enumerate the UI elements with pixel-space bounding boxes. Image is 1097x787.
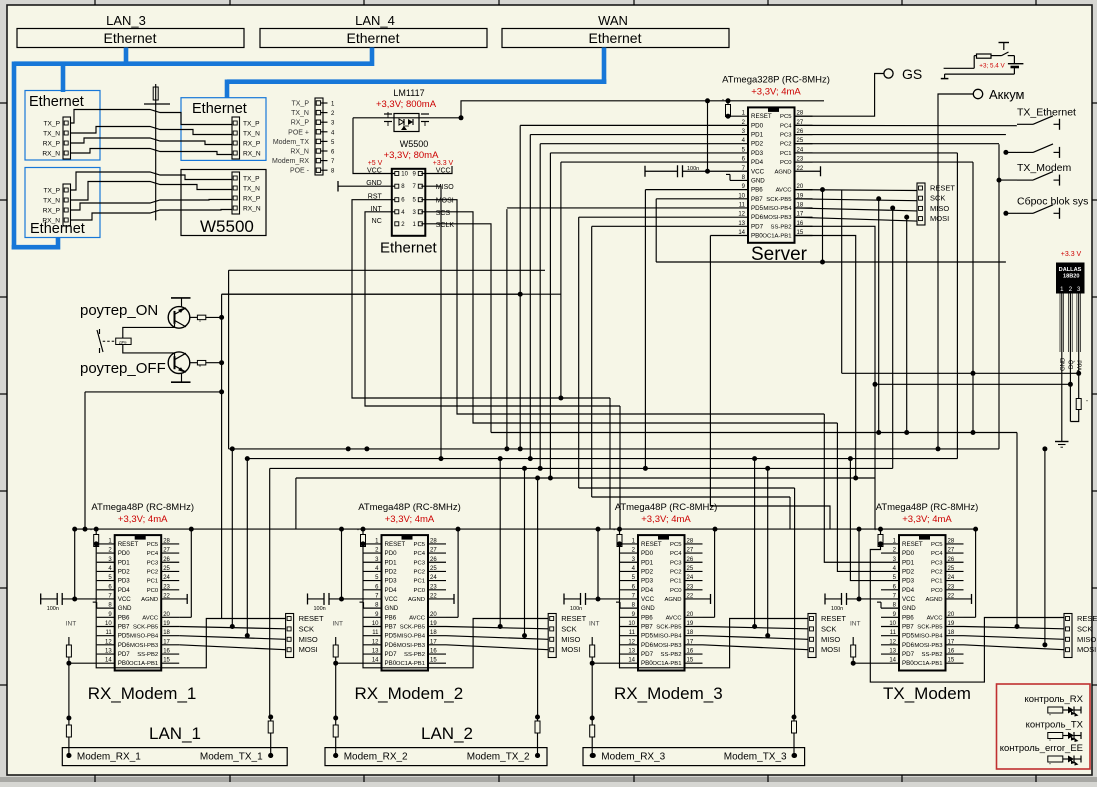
svg-text:TX_Modem: TX_Modem xyxy=(1017,162,1072,174)
svg-text:27: 27 xyxy=(430,548,437,554)
svg-text:": " xyxy=(614,529,616,535)
svg-text:PD7: PD7 xyxy=(641,651,654,658)
svg-text:RESET: RESET xyxy=(821,614,846,623)
svg-text:10: 10 xyxy=(628,621,635,627)
svg-text:15: 15 xyxy=(948,658,955,664)
svg-text:RX_P: RX_P xyxy=(243,141,261,148)
svg-text:": " xyxy=(199,366,201,372)
svg-text:SCK: SCK xyxy=(561,624,576,633)
svg-text:PD1: PD1 xyxy=(385,559,398,566)
svg-text:PC1: PC1 xyxy=(414,579,425,585)
svg-text:ATmega328P (RC-8MHz): ATmega328P (RC-8MHz) xyxy=(722,74,830,85)
svg-text:18B20: 18B20 xyxy=(1063,274,1079,280)
svg-text:": " xyxy=(722,99,724,105)
svg-text:PD1: PD1 xyxy=(641,559,654,566)
svg-text:24: 24 xyxy=(430,575,437,581)
svg-text:13: 13 xyxy=(628,649,635,655)
svg-text:20: 20 xyxy=(430,612,437,618)
svg-text:MOSI: MOSI xyxy=(436,198,454,205)
svg-text:16: 16 xyxy=(163,649,170,655)
svg-text:RX_N: RX_N xyxy=(243,206,261,213)
svg-text:LAN_4: LAN_4 xyxy=(355,13,395,28)
svg-text:MISO-PB4: MISO-PB4 xyxy=(653,634,682,640)
svg-text:ДРв: ДРв xyxy=(119,339,127,344)
svg-text:MISO: MISO xyxy=(1077,635,1096,644)
svg-text:RX_Modem_2: RX_Modem_2 xyxy=(355,684,464,703)
svg-text:12: 12 xyxy=(372,639,379,645)
svg-text:14: 14 xyxy=(105,658,112,664)
svg-text:SCLK: SCLK xyxy=(436,222,455,229)
svg-text:22: 22 xyxy=(163,593,170,599)
svg-text:TX_N: TX_N xyxy=(291,110,309,117)
svg-text:MISO-PB4: MISO-PB4 xyxy=(397,634,426,640)
svg-text:PC5: PC5 xyxy=(780,114,792,120)
svg-text:WAN: WAN xyxy=(598,13,628,28)
svg-text:PD0: PD0 xyxy=(641,550,654,557)
svg-text:22: 22 xyxy=(948,593,955,599)
svg-text:TX_N: TX_N xyxy=(43,131,60,138)
svg-text:PD3: PD3 xyxy=(641,578,654,585)
svg-text:PC4: PC4 xyxy=(931,551,943,557)
svg-text:PC0: PC0 xyxy=(414,588,426,594)
svg-text:RX_N: RX_N xyxy=(243,151,261,158)
svg-text:MISO: MISO xyxy=(299,635,318,644)
svg-text:AVCC: AVCC xyxy=(776,188,793,194)
svg-text:TX_N: TX_N xyxy=(243,131,260,138)
svg-text:SCS: SCS xyxy=(436,210,451,217)
svg-text:GND: GND xyxy=(118,605,132,612)
svg-text:17: 17 xyxy=(163,639,170,645)
svg-text:14: 14 xyxy=(889,658,896,664)
svg-text:RX_P: RX_P xyxy=(43,141,61,148)
svg-text:AGND: AGND xyxy=(141,597,158,603)
svg-text:MOSI-PB3: MOSI-PB3 xyxy=(914,643,943,649)
svg-text:27: 27 xyxy=(948,548,955,554)
svg-text:PD1: PD1 xyxy=(902,559,915,566)
svg-text:100n: 100n xyxy=(314,606,326,612)
svg-text:PC5: PC5 xyxy=(670,542,682,548)
svg-text:PC1: PC1 xyxy=(147,579,158,585)
svg-text:18: 18 xyxy=(163,630,170,636)
svg-text:PD5: PD5 xyxy=(902,633,915,640)
svg-text:POE +: POE + xyxy=(288,129,309,136)
svg-text:GS: GS xyxy=(902,66,922,82)
svg-text:Аккум: Аккум xyxy=(989,87,1025,102)
svg-text:25: 25 xyxy=(687,566,694,572)
svg-text:10: 10 xyxy=(738,193,745,199)
svg-text:Сброс blok sys: Сброс blok sys xyxy=(1017,195,1088,207)
svg-text:PD4: PD4 xyxy=(385,587,398,594)
svg-text:26: 26 xyxy=(687,557,694,563)
svg-text:PD7: PD7 xyxy=(751,223,764,230)
svg-text:AGND: AGND xyxy=(774,169,791,175)
svg-text:Modem_TX_2: Modem_TX_2 xyxy=(467,752,530,763)
svg-text:25: 25 xyxy=(430,566,437,572)
svg-text:VCC: VCC xyxy=(385,596,399,603)
svg-text:контроль_error_EE: контроль_error_EE xyxy=(1000,743,1083,754)
svg-text:100n: 100n xyxy=(570,606,582,612)
svg-text:RX_N: RX_N xyxy=(42,218,60,225)
svg-text:SCK-PB5: SCK-PB5 xyxy=(400,624,426,630)
svg-text:VCC: VCC xyxy=(751,168,765,175)
svg-text:PD6: PD6 xyxy=(118,642,131,649)
svg-text:роутер_ON: роутер_ON xyxy=(80,302,158,319)
svg-text:PC3: PC3 xyxy=(147,560,159,566)
svg-text:NC: NC xyxy=(372,218,382,225)
svg-text:": " xyxy=(1086,400,1088,406)
svg-text:PD3: PD3 xyxy=(385,578,398,585)
svg-text:MISO: MISO xyxy=(561,635,580,644)
svg-text:PC2: PC2 xyxy=(414,569,425,575)
svg-text:ATmega48P (RC-8MHz): ATmega48P (RC-8MHz) xyxy=(876,502,979,513)
svg-text:TX_P: TX_P xyxy=(44,121,61,128)
svg-text:PD6: PD6 xyxy=(641,642,654,649)
svg-text:Modem_RX_3: Modem_RX_3 xyxy=(601,752,665,763)
svg-text:19: 19 xyxy=(163,621,170,627)
svg-text:Modem_TX_3: Modem_TX_3 xyxy=(724,752,787,763)
svg-text:26: 26 xyxy=(430,557,437,563)
svg-text:SCK: SCK xyxy=(821,624,836,633)
svg-text:AVCC: AVCC xyxy=(666,615,683,621)
svg-text:INT: INT xyxy=(589,621,600,628)
svg-text:24: 24 xyxy=(163,575,170,581)
svg-text:PB7: PB7 xyxy=(118,623,130,630)
svg-text:ATmega48P (RC-8MHz): ATmega48P (RC-8MHz) xyxy=(91,502,194,513)
svg-text:SS-PB2: SS-PB2 xyxy=(922,652,943,658)
svg-text:20: 20 xyxy=(948,612,955,618)
svg-text:RESET: RESET xyxy=(1077,614,1097,623)
svg-text:PD2: PD2 xyxy=(751,141,764,148)
svg-text:26: 26 xyxy=(948,557,955,563)
svg-text:": " xyxy=(1049,763,1051,769)
svg-text:PD4: PD4 xyxy=(751,159,764,166)
svg-text:PC0: PC0 xyxy=(670,588,682,594)
svg-text:28: 28 xyxy=(163,538,170,544)
svg-text:SS-PB2: SS-PB2 xyxy=(661,652,682,658)
svg-text:10: 10 xyxy=(105,621,112,627)
svg-text:MOSI: MOSI xyxy=(1077,645,1096,654)
svg-text:SS-PB2: SS-PB2 xyxy=(404,652,425,658)
svg-text:13: 13 xyxy=(372,649,379,655)
svg-text:MOSI-PB3: MOSI-PB3 xyxy=(397,643,426,649)
svg-text:TX_N: TX_N xyxy=(243,186,260,193)
svg-text:11: 11 xyxy=(890,630,897,636)
svg-text:11: 11 xyxy=(105,630,112,636)
svg-text:RESET: RESET xyxy=(118,541,139,548)
svg-text:RESET: RESET xyxy=(385,541,406,548)
svg-text:Modem_RX_2: Modem_RX_2 xyxy=(344,752,408,763)
svg-text:24: 24 xyxy=(687,575,694,581)
svg-text:10: 10 xyxy=(372,621,379,627)
svg-text:OC1A-PB1: OC1A-PB1 xyxy=(129,661,158,667)
svg-text:PD2: PD2 xyxy=(385,568,398,575)
svg-text:24: 24 xyxy=(948,575,955,581)
svg-text:12: 12 xyxy=(889,639,896,645)
svg-text:PC3: PC3 xyxy=(931,560,943,566)
svg-text:23: 23 xyxy=(687,584,694,590)
svg-text:22: 22 xyxy=(687,593,694,599)
svg-text:W5500: W5500 xyxy=(400,139,429,149)
svg-text:RX_Modem_3: RX_Modem_3 xyxy=(614,684,723,703)
svg-text:PB6: PB6 xyxy=(751,187,763,194)
svg-text:SCK: SCK xyxy=(930,194,945,203)
svg-text:AGND: AGND xyxy=(408,597,425,603)
svg-text:PC4: PC4 xyxy=(147,551,159,557)
svg-text:MISO-PB4: MISO-PB4 xyxy=(763,206,792,212)
svg-text:PB7: PB7 xyxy=(902,623,914,630)
svg-text:28: 28 xyxy=(687,538,694,544)
svg-text:12: 12 xyxy=(628,639,635,645)
svg-text:PD1: PD1 xyxy=(751,132,764,139)
svg-text:Ethernet: Ethernet xyxy=(347,30,400,46)
svg-text:контроль_TX: контроль_TX xyxy=(1026,720,1084,731)
svg-text:PC2: PC2 xyxy=(931,569,942,575)
svg-text:MOSI: MOSI xyxy=(930,214,949,223)
svg-text:INT: INT xyxy=(66,621,77,628)
svg-text:PD4: PD4 xyxy=(902,587,915,594)
svg-text:19: 19 xyxy=(687,621,694,627)
svg-text:AVCC: AVCC xyxy=(927,615,944,621)
svg-text:14: 14 xyxy=(738,230,745,236)
svg-text:+3.3 V: +3.3 V xyxy=(1061,251,1082,258)
svg-text:23: 23 xyxy=(948,584,955,590)
svg-text:PD0: PD0 xyxy=(118,550,131,557)
svg-text:PC1: PC1 xyxy=(931,579,942,585)
svg-text:TX_P: TX_P xyxy=(291,101,309,108)
svg-text:RESET: RESET xyxy=(561,614,586,623)
svg-text:15: 15 xyxy=(687,658,694,664)
svg-text:PD1: PD1 xyxy=(118,559,131,566)
svg-text:17: 17 xyxy=(948,639,955,645)
svg-text:PC0: PC0 xyxy=(931,588,943,594)
svg-text:PC0: PC0 xyxy=(780,160,792,166)
svg-text:PB6: PB6 xyxy=(118,614,130,621)
svg-text:26: 26 xyxy=(163,557,170,563)
svg-text:17: 17 xyxy=(687,639,694,645)
svg-text:DALLAS: DALLAS xyxy=(1059,267,1082,273)
svg-text:PD5: PD5 xyxy=(751,205,764,212)
svg-text:MISO-PB4: MISO-PB4 xyxy=(914,634,943,640)
svg-text:MOSI: MOSI xyxy=(821,645,840,654)
svg-text:+3,3V; 4mA: +3,3V; 4mA xyxy=(118,514,168,525)
svg-text:PD4: PD4 xyxy=(641,587,654,594)
svg-text:+3,3V; 4mA: +3,3V; 4mA xyxy=(902,514,952,525)
svg-text:W5500: W5500 xyxy=(200,217,254,236)
svg-text:RESET: RESET xyxy=(751,113,772,120)
svg-text:12: 12 xyxy=(738,212,745,218)
svg-text:22: 22 xyxy=(430,593,437,599)
svg-text:PD2: PD2 xyxy=(118,568,131,575)
svg-text:13: 13 xyxy=(889,649,896,655)
svg-text:PD6: PD6 xyxy=(902,642,915,649)
svg-text:PB7: PB7 xyxy=(641,623,653,630)
svg-text:": " xyxy=(357,529,359,535)
svg-text:контроль_RX: контроль_RX xyxy=(1025,694,1084,705)
svg-text:PC2: PC2 xyxy=(670,569,681,575)
svg-text:OC1A-PB1: OC1A-PB1 xyxy=(396,661,425,667)
svg-text:TX_P: TX_P xyxy=(44,188,61,195)
svg-text:MOSI-PB3: MOSI-PB3 xyxy=(653,643,682,649)
svg-text:+3,3V; 4mA: +3,3V; 4mA xyxy=(385,514,435,525)
svg-text:Modem_RX: Modem_RX xyxy=(272,158,309,165)
svg-text:RX_P: RX_P xyxy=(243,196,261,203)
svg-text:RX_N: RX_N xyxy=(290,149,309,156)
svg-text:+3,3V; 800mA: +3,3V; 800mA xyxy=(376,99,437,110)
svg-text:INT: INT xyxy=(850,621,861,628)
svg-text:PC4: PC4 xyxy=(670,551,682,557)
svg-text:POE -: POE - xyxy=(290,168,310,175)
svg-text:LM1117: LM1117 xyxy=(393,88,424,98)
svg-text:28: 28 xyxy=(948,538,955,544)
svg-text:RX_Modem_1: RX_Modem_1 xyxy=(88,684,197,703)
svg-text:PC1: PC1 xyxy=(780,151,791,157)
svg-text:PD5: PD5 xyxy=(118,633,131,640)
svg-text:AGND: AGND xyxy=(925,597,942,603)
svg-text:Modem_TX: Modem_TX xyxy=(273,139,310,146)
svg-text:LAN_2: LAN_2 xyxy=(421,724,473,743)
svg-text:RX_N: RX_N xyxy=(42,151,60,158)
svg-text:роутер_OFF: роутер_OFF xyxy=(80,360,166,377)
svg-text:+3,3V; 4mA: +3,3V; 4mA xyxy=(751,86,801,97)
svg-text:Ethernet: Ethernet xyxy=(589,30,642,46)
svg-text:17: 17 xyxy=(430,639,437,645)
svg-text:Modem_RX_1: Modem_RX_1 xyxy=(77,752,141,763)
svg-text:PC5: PC5 xyxy=(414,542,426,548)
svg-text:PD7: PD7 xyxy=(902,651,915,658)
svg-text:+3,3V; 80mA: +3,3V; 80mA xyxy=(384,150,439,161)
svg-text:GND: GND xyxy=(385,605,399,612)
svg-text:Ethernet: Ethernet xyxy=(29,94,84,110)
svg-text:MISO: MISO xyxy=(436,184,454,191)
svg-text:OC1A-PB1: OC1A-PB1 xyxy=(762,233,791,239)
svg-text:INT: INT xyxy=(333,621,344,628)
svg-text:PD2: PD2 xyxy=(902,568,915,575)
svg-text:RESET: RESET xyxy=(902,541,923,548)
svg-text:SCK-PB5: SCK-PB5 xyxy=(656,624,682,630)
svg-text:23: 23 xyxy=(163,584,170,590)
svg-text:20: 20 xyxy=(163,612,170,618)
svg-text:OC1A-PB1: OC1A-PB1 xyxy=(913,661,942,667)
svg-text:PC3: PC3 xyxy=(670,560,682,566)
svg-text:100n: 100n xyxy=(687,166,699,172)
svg-text:Ethernet: Ethernet xyxy=(104,30,157,46)
svg-text:+3,3V; 4mA: +3,3V; 4mA xyxy=(641,514,691,525)
svg-text:PC4: PC4 xyxy=(414,551,426,557)
svg-text:MOSI: MOSI xyxy=(299,645,318,654)
svg-text:MISO: MISO xyxy=(821,635,840,644)
svg-text:+3.3 V: +3.3 V xyxy=(433,160,454,167)
svg-text:16: 16 xyxy=(948,649,955,655)
svg-text:PD5: PD5 xyxy=(641,633,654,640)
svg-text:TX_P: TX_P xyxy=(243,121,260,128)
svg-text:PD7: PD7 xyxy=(118,651,131,658)
svg-text:22: 22 xyxy=(797,166,804,172)
svg-text:TX_Ethernet: TX_Ethernet xyxy=(1017,106,1076,118)
svg-text:13: 13 xyxy=(105,649,112,655)
svg-text:10: 10 xyxy=(889,621,896,627)
svg-text:PC1: PC1 xyxy=(670,579,681,585)
svg-text:PD6: PD6 xyxy=(751,214,764,221)
svg-text:GND: GND xyxy=(751,177,765,184)
svg-text:PD7: PD7 xyxy=(385,651,398,658)
svg-text:27: 27 xyxy=(163,548,170,554)
svg-text:PC0: PC0 xyxy=(147,588,159,594)
svg-text:PC3: PC3 xyxy=(414,560,426,566)
svg-text:AVCC: AVCC xyxy=(142,615,159,621)
svg-text:VCC: VCC xyxy=(902,596,916,603)
svg-text:18: 18 xyxy=(948,630,955,636)
svg-text:25: 25 xyxy=(948,566,955,572)
svg-text:PC5: PC5 xyxy=(931,542,943,548)
svg-text:16: 16 xyxy=(430,649,437,655)
svg-text:MISO-PB4: MISO-PB4 xyxy=(130,634,159,640)
svg-text:SCK-PB5: SCK-PB5 xyxy=(766,197,792,203)
svg-text:PD4: PD4 xyxy=(118,587,131,594)
svg-text:100n: 100n xyxy=(831,606,843,612)
svg-text:+5 V: +5 V xyxy=(368,160,383,167)
svg-text:PD6: PD6 xyxy=(385,642,398,649)
svg-text:11: 11 xyxy=(372,630,379,636)
svg-text:": " xyxy=(90,529,92,535)
svg-text:PC2: PC2 xyxy=(780,142,791,148)
svg-text:MOSI: MOSI xyxy=(561,645,580,654)
svg-text:GND: GND xyxy=(902,605,916,612)
svg-text:Ethernet: Ethernet xyxy=(380,240,438,257)
svg-text:18: 18 xyxy=(430,630,437,636)
svg-text:Ethernet: Ethernet xyxy=(192,101,247,117)
svg-text:28: 28 xyxy=(430,538,437,544)
svg-text:OC1A-PB1: OC1A-PB1 xyxy=(652,661,681,667)
svg-text:TX_N: TX_N xyxy=(43,198,60,205)
svg-text:VCC: VCC xyxy=(118,596,132,603)
svg-text:25: 25 xyxy=(163,566,170,572)
svg-text:SS-PB2: SS-PB2 xyxy=(137,652,158,658)
svg-text:ATmega48P (RC-8MHz): ATmega48P (RC-8MHz) xyxy=(615,502,718,513)
svg-text:LAN_1: LAN_1 xyxy=(149,724,201,743)
svg-text:SCK-PB5: SCK-PB5 xyxy=(133,624,159,630)
svg-text:16: 16 xyxy=(687,649,694,655)
svg-text:PD3: PD3 xyxy=(751,150,764,157)
svg-text:PC4: PC4 xyxy=(780,123,792,129)
svg-text:MISO: MISO xyxy=(930,204,949,213)
svg-text:AVCC: AVCC xyxy=(409,615,426,621)
svg-text:PB7: PB7 xyxy=(751,196,763,203)
svg-text:PD0: PD0 xyxy=(751,122,764,129)
svg-text:Modem_TX_1: Modem_TX_1 xyxy=(200,752,263,763)
svg-text:SCK-PB5: SCK-PB5 xyxy=(917,624,943,630)
svg-text:MOSI-PB3: MOSI-PB3 xyxy=(763,215,792,221)
svg-text:PB6: PB6 xyxy=(902,614,914,621)
svg-text:13: 13 xyxy=(738,221,745,227)
svg-text:10: 10 xyxy=(401,172,408,178)
svg-text:SS-PB2: SS-PB2 xyxy=(771,224,792,230)
svg-text:23: 23 xyxy=(430,584,437,590)
svg-text:GND: GND xyxy=(641,605,655,612)
svg-text:14: 14 xyxy=(628,658,635,664)
svg-text:15: 15 xyxy=(163,658,170,664)
svg-text:RX_P: RX_P xyxy=(291,120,310,127)
svg-text:PC5: PC5 xyxy=(147,542,159,548)
svg-text:18: 18 xyxy=(687,630,694,636)
svg-text:PB6: PB6 xyxy=(385,614,397,621)
svg-text:12: 12 xyxy=(105,639,112,645)
svg-text:PD0: PD0 xyxy=(385,550,398,557)
svg-text:": " xyxy=(199,320,201,326)
svg-text:11: 11 xyxy=(629,630,636,636)
svg-text:PD3: PD3 xyxy=(118,578,131,585)
svg-text:20: 20 xyxy=(687,612,694,618)
svg-text:11: 11 xyxy=(739,202,746,208)
